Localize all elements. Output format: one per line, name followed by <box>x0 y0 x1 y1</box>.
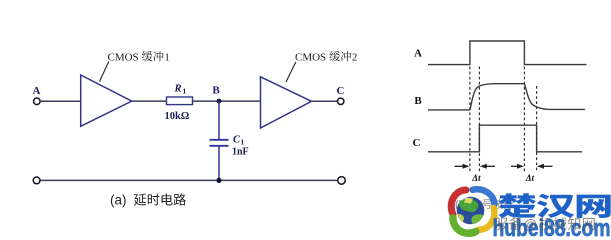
svg-text:1: 1 <box>183 87 187 96</box>
label R1 <box>174 84 187 96</box>
watermark gray text 服备@机械知网 <box>494 217 594 232</box>
waveform label B <box>414 95 422 107</box>
svg-text:B: B <box>212 85 220 97</box>
label Δt 1 <box>471 173 481 183</box>
wire U2 to terminal C <box>312 100 338 102</box>
svg-text:A: A <box>33 85 41 97</box>
node B junction <box>217 99 222 104</box>
terminal A <box>34 98 41 105</box>
watermark text hubei88.com <box>493 215 611 240</box>
delta-t arrows pair 2 <box>511 164 553 169</box>
CMOS buffer U2 <box>261 77 312 128</box>
wire R1 to U2 <box>193 100 261 102</box>
svg-text:A: A <box>414 48 422 60</box>
wire U1 to R1 <box>132 100 167 102</box>
resistor R1 <box>167 97 193 105</box>
svg-text:(a): (a) <box>110 193 127 208</box>
svg-text:Δt: Δt <box>525 173 535 183</box>
svg-text:1: 1 <box>241 138 245 147</box>
wire B to C1 <box>218 101 220 140</box>
caption (a) 延时电路 <box>110 193 186 208</box>
label C1 <box>233 135 245 147</box>
waveform trace A <box>428 41 587 65</box>
svg-text:R: R <box>174 84 182 95</box>
node B label <box>212 85 220 97</box>
wire C1 to bottom bus <box>218 146 220 181</box>
watermark logo swirl globe <box>451 189 494 233</box>
wire A to U1 <box>40 100 80 102</box>
caption (b) 信号波形 <box>455 199 514 211</box>
dashed guide line 4 <box>536 86 538 172</box>
label CMOS 缓冲1 <box>108 51 170 64</box>
svg-text:Δt: Δt <box>471 173 481 183</box>
node C label <box>337 85 345 97</box>
svg-text:CMOS: CMOS <box>108 52 139 64</box>
terminal C <box>338 98 344 104</box>
node A label <box>33 85 41 97</box>
svg-text:CMOS: CMOS <box>295 52 326 64</box>
waveform trace C <box>428 125 582 152</box>
svg-text:C: C <box>337 85 345 97</box>
svg-text:1nF: 1nF <box>232 147 249 158</box>
svg-text:10kΩ: 10kΩ <box>165 111 190 122</box>
label CMOS 缓冲2 <box>295 51 357 64</box>
dashed guide line 1 <box>469 67 471 172</box>
delta-t arrows pair 1 <box>455 164 496 169</box>
bus junction <box>216 178 221 183</box>
watermark text 楚汉网 <box>498 193 610 218</box>
label Δt 2 <box>525 173 535 183</box>
leader line to U1 label <box>100 62 109 82</box>
label 1nF <box>232 147 249 158</box>
bottom-left terminal <box>33 177 40 184</box>
waveform trace B <box>428 84 585 110</box>
leader line to U2 label <box>286 62 296 82</box>
svg-text:C: C <box>413 137 421 149</box>
svg-text:1: 1 <box>165 53 170 64</box>
svg-text:B: B <box>414 95 422 107</box>
bottom bus wire <box>40 179 338 181</box>
bottom-right terminal <box>338 177 346 185</box>
capacitor C1 <box>210 140 229 146</box>
waveform label A <box>414 48 422 60</box>
label 10kΩ <box>165 111 190 122</box>
dashed guide line 2 <box>478 67 480 172</box>
svg-text:2: 2 <box>352 53 357 64</box>
waveform label C <box>413 137 421 149</box>
dashed guide line 3 <box>523 67 525 172</box>
svg-text:@: @ <box>524 217 538 232</box>
CMOS buffer U1 <box>81 75 132 126</box>
